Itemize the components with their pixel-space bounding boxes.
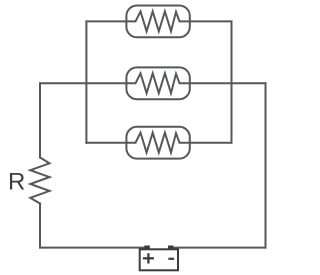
wire top-left horizontal (bus to lamp 1) bbox=[86, 20, 126, 22]
battery minus sign bbox=[168, 258, 174, 260]
wire bottom-left horizontal (to battery +) bbox=[40, 247, 145, 249]
wire middle-left horizontal (R branch to lamp 2) bbox=[40, 82, 127, 84]
wire third-left horizontal (bus to lamp 3) bbox=[86, 142, 127, 144]
lamp element 1 resistor zigzag bbox=[126, 11, 189, 31]
wire left vertical below resistor R bbox=[39, 204, 41, 248]
battery terminal nub - bbox=[168, 246, 174, 250]
wire right branch vertical (lamp1/lamp3 tie) bbox=[231, 21, 233, 142]
lamp element 1 outline bbox=[126, 6, 189, 38]
battery plus sign bbox=[143, 253, 154, 263]
battery terminal nub + bbox=[144, 246, 150, 250]
wire third-right horizontal (lamp 3 to right branch) bbox=[190, 142, 232, 144]
lamp element 3 outline bbox=[126, 127, 189, 159]
wire far-right vertical bbox=[265, 83, 267, 247]
resistor R zigzag bbox=[30, 158, 49, 204]
wire left vertical above resistor R bbox=[39, 83, 41, 157]
wire top-right horizontal (lamp 1 to right branch) bbox=[190, 20, 232, 22]
wire middle-right horizontal (lamp 2 to far right) bbox=[190, 82, 266, 84]
lamp element 2 outline bbox=[126, 67, 189, 99]
svg-text:R: R bbox=[8, 169, 25, 196]
battery outline bbox=[140, 249, 178, 270]
wire left bus vertical bbox=[85, 21, 87, 142]
lamp element 2 resistor zigzag bbox=[126, 73, 189, 93]
wire bottom-right horizontal (battery - to far right) bbox=[173, 247, 266, 249]
lamp element 3 resistor zigzag bbox=[126, 133, 189, 153]
